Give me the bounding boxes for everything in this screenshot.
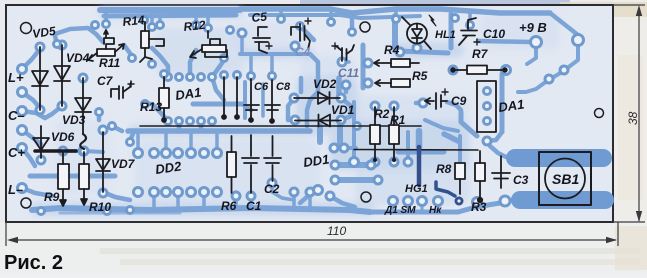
board outline — [6, 5, 613, 222]
pad DD2 bottom row — [134, 188, 143, 197]
wire — [103, 192, 130, 200]
dimension extension bottom right2 — [617, 222, 619, 246]
wire — [212, 60, 224, 77]
pad power — [531, 37, 542, 48]
wire R2R1 zone — [352, 102, 356, 160]
svg-text:C+: C+ — [8, 145, 25, 160]
resistor R4 — [374, 59, 419, 67]
pad bottom contacts — [389, 197, 398, 206]
svg-text:C5: C5 — [251, 9, 268, 25]
wire — [307, 92, 318, 126]
pad top spurs — [103, 21, 110, 28]
mounting hole bottom-mid — [361, 192, 371, 202]
pad DD2 top row — [134, 149, 143, 158]
wire HG1 zone — [398, 150, 444, 155]
wire C10 to +9V — [478, 41, 531, 42]
resistor R13 — [159, 77, 169, 122]
svg-text:C9: C9 — [451, 94, 467, 108]
pad DA1-left top row — [165, 74, 172, 81]
wire — [406, 132, 410, 160]
wire DD2 stubs up — [138, 133, 217, 153]
wire — [199, 121, 204, 131]
wire — [344, 85, 349, 92]
wire — [317, 126, 323, 142]
capacitor C6 — [244, 79, 259, 122]
svg-text:C8: C8 — [276, 81, 291, 93]
wire — [350, 14, 355, 30]
wire HG1 dark bar — [417, 147, 422, 185]
wire thick L — [193, 102, 242, 107]
svg-text:R12: R12 — [183, 18, 207, 34]
mounting hole top-mid — [360, 22, 370, 32]
svg-text:R5: R5 — [412, 69, 428, 83]
wire — [337, 126, 343, 144]
wire — [55, 36, 57, 44]
trimmer R11 — [88, 30, 124, 61]
svg-text:38: 38 — [626, 111, 640, 125]
wire left wiggle — [55, 28, 103, 42]
wire band y176 — [30, 174, 115, 179]
arrowhead right — [606, 237, 617, 243]
capacitor C1 — [242, 135, 259, 193]
wire — [251, 57, 272, 76]
pad diode columns — [36, 43, 44, 51]
wire — [518, 81, 547, 92]
wire R6C1C2 stubs — [236, 192, 251, 206]
wire — [505, 200, 512, 201]
mounting hole right — [595, 109, 604, 118]
wire — [527, 46, 536, 64]
svg-text:VD6: VD6 — [51, 130, 75, 144]
wire — [294, 192, 310, 206]
wire C9 zone — [447, 102, 461, 110]
pads — [18, 15, 584, 215]
wire — [449, 14, 454, 48]
diode VD6 — [33, 126, 76, 158]
wire — [444, 134, 458, 141]
pad DD1 — [330, 144, 338, 152]
dimension line 38 vertical — [638, 8, 640, 221]
svg-text:L–: L– — [8, 182, 23, 197]
pad C6C8 tops — [221, 72, 228, 79]
ghost print artifacts — [300, 0, 570, 4]
svg-text:R3: R3 — [471, 200, 487, 214]
svg-text:C3: C3 — [513, 173, 529, 187]
capacitor C4 — [291, 18, 311, 49]
pad HL1 C10 — [413, 44, 421, 52]
long black wire — [140, 125, 421, 127]
diode VD1 — [295, 115, 341, 127]
pad dark — [455, 197, 464, 206]
svg-text:SB1: SB1 — [552, 171, 579, 187]
pad bottom mid — [232, 192, 240, 200]
pad DA1 right column — [484, 88, 491, 95]
wire — [398, 51, 448, 53]
svg-text:C11: C11 — [338, 66, 359, 80]
svg-text:R8: R8 — [436, 162, 452, 176]
diode VD3 — [75, 78, 91, 149]
wire — [488, 132, 502, 141]
wire — [425, 120, 458, 131]
wire — [272, 183, 294, 200]
wire — [416, 101, 423, 106]
wire DD1 bars — [335, 162, 371, 168]
svg-text:Рис. 2: Рис. 2 — [4, 252, 63, 273]
svg-text:R9: R9 — [44, 190, 60, 204]
wire — [416, 131, 423, 147]
dimension extension bottom right — [613, 221, 645, 223]
wire top thick run — [100, 7, 240, 13]
wire — [22, 188, 52, 196]
wire — [490, 146, 506, 157]
wire — [300, 190, 318, 203]
arrowhead down — [636, 211, 642, 222]
svg-text:VD1: VD1 — [331, 103, 355, 117]
resistor R6 — [227, 136, 236, 193]
dark navy HG1 parts — [419, 147, 464, 206]
wire terminal links — [22, 49, 40, 69]
wire top run mid — [240, 9, 550, 13]
pad R13 — [161, 71, 168, 78]
IC DA1 outline — [477, 81, 496, 132]
svg-text:C1: C1 — [246, 199, 262, 213]
wire black mid — [354, 149, 478, 152]
wire fillers — [124, 45, 132, 56]
wire — [22, 148, 35, 166]
wire — [190, 50, 196, 77]
wire bottom contacts run — [372, 203, 500, 212]
trimmer R12 — [190, 31, 227, 58]
svg-text:VD7: VD7 — [111, 157, 136, 171]
capacitor C5 — [253, 27, 272, 53]
wire — [344, 146, 356, 150]
svg-text:HG1: HG1 — [405, 183, 428, 195]
pad R14 R12 area — [141, 17, 148, 24]
pad R7 — [449, 66, 457, 74]
diode VD7 — [96, 132, 110, 192]
pad diode row — [290, 94, 298, 102]
wire bottom bus — [32, 208, 370, 212]
svg-text:R14: R14 — [122, 13, 146, 29]
svg-text:R13: R13 — [140, 100, 162, 114]
wire — [461, 112, 477, 136]
wire — [342, 62, 368, 83]
copper haze — [30, 6, 560, 216]
wire — [335, 177, 378, 183]
diode VD5 — [32, 47, 48, 110]
dimension extension top right — [613, 4, 645, 6]
capacitor C7 — [111, 81, 134, 99]
wire HL1 zone — [392, 16, 398, 48]
wire row y151 — [63, 151, 103, 152]
capacitor C8 — [265, 80, 280, 123]
wire mid band y131 — [128, 128, 310, 134]
svg-text:VD4: VD4 — [66, 51, 90, 65]
wire — [299, 78, 304, 92]
resistor R3 — [475, 151, 485, 202]
diode VD4 — [54, 45, 70, 106]
svg-text:C2: C2 — [264, 182, 280, 196]
resistor R7 — [451, 66, 507, 75]
dimension line 110 — [9, 239, 616, 241]
wire — [22, 111, 45, 118]
mounting hole top-left — [21, 23, 32, 34]
wire — [130, 131, 134, 141]
wire — [341, 98, 351, 120]
pad fillers — [129, 55, 136, 62]
wire DA1 right side — [500, 74, 505, 132]
wire — [240, 33, 244, 52]
svg-text:R2: R2 — [374, 107, 390, 121]
resistor R9 — [58, 152, 69, 206]
capacitor C11 — [332, 43, 354, 61]
pad C5 C4 — [238, 29, 246, 37]
resistor R10 — [79, 152, 89, 205]
wire — [310, 54, 318, 92]
svg-text:R6: R6 — [221, 199, 237, 213]
svg-text:VD3: VD3 — [62, 113, 86, 127]
svg-text:+9 В: +9 В — [519, 20, 547, 35]
wire — [177, 121, 182, 131]
wire — [293, 46, 297, 54]
svg-text:R7: R7 — [472, 47, 489, 61]
wire — [566, 44, 578, 69]
wire — [60, 212, 180, 215]
mounting hole bottom-left — [21, 198, 31, 208]
pad C11 R4 R5 — [338, 58, 346, 66]
wire C11R4 — [361, 45, 366, 88]
wire spur — [281, 9, 470, 24]
svg-text:C4: C4 — [295, 45, 311, 59]
capacitor C10 — [459, 18, 480, 45]
dimension extension bottom left — [5, 222, 7, 246]
svg-text:C10: C10 — [483, 27, 505, 41]
wire C6 area verticals — [223, 77, 225, 116]
wire — [243, 82, 247, 118]
wire spur — [106, 11, 208, 27]
svg-text:C–: C– — [8, 108, 25, 123]
wire HG1 step — [436, 182, 455, 196]
svg-text:C6: C6 — [254, 81, 269, 93]
wire — [330, 196, 355, 207]
resistor R2 — [370, 107, 380, 160]
wire — [242, 104, 251, 110]
wire — [22, 130, 41, 144]
capacitor C2 — [264, 136, 281, 181]
svg-text:110: 110 — [327, 224, 346, 238]
svg-text:R1: R1 — [390, 113, 406, 127]
pad terminals left — [18, 65, 27, 74]
resistor R8 — [455, 163, 465, 194]
wire — [302, 28, 314, 40]
wire DA1left links — [152, 48, 168, 77]
capacitor C3 — [492, 156, 510, 188]
wire — [288, 98, 295, 120]
wire — [458, 136, 462, 162]
wire — [22, 92, 40, 108]
svg-text:R10: R10 — [89, 200, 111, 214]
wire — [112, 126, 122, 131]
svg-text:HL1: HL1 — [435, 29, 456, 41]
resistor R1 — [389, 107, 399, 160]
LED HL1 — [402, 15, 436, 49]
pad C9 — [419, 99, 427, 107]
pad DA1-left bottom row — [165, 118, 172, 125]
svg-text:Д1 SМ: Д1 SМ — [384, 205, 416, 216]
svg-text:L+: L+ — [8, 70, 24, 85]
svg-text:Нк: Нк — [429, 205, 442, 216]
button SB1 — [539, 152, 591, 205]
svg-text:C7: C7 — [97, 74, 114, 88]
wire top-right diagonal to pad — [550, 13, 578, 40]
diode VD2 — [294, 92, 340, 104]
arrowhead left — [7, 237, 18, 243]
wire DD2 stubs down — [154, 192, 204, 207]
wire — [145, 104, 168, 121]
svg-text:R4: R4 — [384, 43, 400, 57]
wire — [261, 84, 265, 116]
wire — [393, 203, 438, 212]
wire — [336, 78, 342, 94]
thick blobs near SB1 — [506, 149, 614, 209]
svg-text:R11: R11 — [99, 56, 120, 70]
wire — [552, 72, 562, 78]
wire — [97, 114, 102, 120]
arrowhead up — [636, 5, 642, 16]
wire thick blob lower — [511, 191, 614, 209]
wire top run 2 — [104, 15, 236, 16]
wire C5C4 band — [240, 52, 310, 56]
pad R2 R1 — [371, 102, 379, 110]
trimmer R14 — [140, 22, 164, 62]
wire — [212, 77, 224, 100]
resistor R5 — [375, 79, 410, 87]
wire thick blob upper — [506, 149, 612, 167]
capacitor C9 — [425, 89, 448, 109]
wire — [45, 106, 62, 118]
svg-text:VD2: VD2 — [313, 77, 337, 91]
